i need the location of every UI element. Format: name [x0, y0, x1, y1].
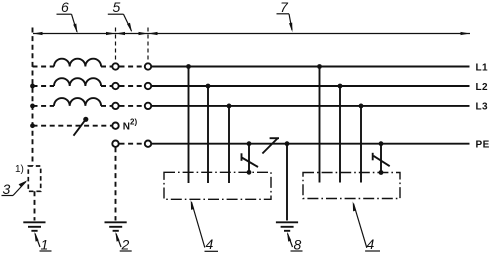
wire between terminals L1: [120, 66, 145, 68]
group 2: link on PE drop: [373, 153, 390, 166]
svg-text:4: 4: [206, 236, 214, 252]
group 2: junction dot at box: [379, 170, 384, 175]
label 2: [115, 232, 131, 253]
label 6: [57, 0, 78, 33]
supply bus vertical (dashed): [32, 28, 34, 167]
terminal circle N: [112, 123, 118, 129]
group 2: junction dot PE tap: [379, 141, 384, 146]
terminal circle L1 b: [145, 63, 151, 69]
group 2: L1 drop wire: [319, 67, 321, 183]
transformer winding L3: [54, 98, 101, 106]
wire L2 to right: [152, 85, 470, 87]
ground 8: [276, 222, 298, 231]
label 1: [34, 232, 51, 253]
box 4 (installation 2): [303, 173, 400, 199]
ground 1: [23, 222, 45, 231]
wire winding to terminal L1: [101, 66, 112, 68]
switch blade N: [74, 117, 89, 136]
terminal circle L2 a: [112, 83, 118, 89]
wire between PE terminals: [120, 143, 145, 145]
wire between terminals L3: [120, 105, 145, 107]
svg-text:PE: PE: [476, 139, 490, 150]
group 1: L3 drop wire: [228, 106, 230, 183]
terminal circle L3 a: [112, 103, 118, 109]
svg-text:8: 8: [294, 237, 302, 253]
group 1: PE drop wire: [248, 144, 250, 173]
junction dot PE earth tap: [285, 141, 290, 146]
earthing conductor 8: [286, 144, 288, 221]
group 1: junction dot L1 tap: [186, 64, 191, 69]
svg-text:7: 7: [280, 0, 289, 15]
junction dot bus N: [30, 123, 35, 128]
label 3: [2, 180, 28, 197]
L3 row: wire from bus: [33, 105, 55, 107]
svg-text:3: 3: [3, 181, 11, 197]
junction dot bus L3: [30, 104, 35, 109]
transformer winding L2: [54, 78, 101, 86]
svg-text:1: 1: [41, 237, 49, 253]
svg-text:2): 2): [130, 118, 137, 127]
group 1: junction dot L3 tap: [227, 104, 232, 109]
group 2: L2 drop wire: [339, 86, 341, 183]
link on PE line (to earth 8): [262, 138, 279, 153]
earthing conductor 2 (dashed): [115, 147, 117, 220]
group 1: L2 drop wire: [207, 86, 209, 183]
label 8: [287, 232, 303, 253]
svg-text:L3: L3: [476, 102, 489, 113]
svg-text:L1: L1: [476, 62, 489, 73]
label 7: [277, 0, 293, 32]
svg-text:6: 6: [61, 0, 69, 15]
group 2: junction dot L3 tap: [359, 104, 364, 109]
group 1: junction dot L2 tap: [206, 84, 211, 89]
label N 2): [123, 118, 138, 133]
svg-text:2: 2: [121, 237, 130, 253]
N row: wire from bus: [33, 125, 112, 127]
svg-text:4: 4: [367, 236, 375, 252]
junction dot bus L2: [30, 84, 35, 89]
transformer winding L1: [54, 59, 101, 67]
group 1: link on PE drop: [242, 153, 259, 167]
wire between terminals L2: [120, 85, 145, 87]
group 2: PE drop wire: [380, 144, 382, 173]
group 2: junction dot L2 tap: [338, 84, 343, 89]
wire resistor to ground 1: [34, 191, 36, 220]
label 4 (installation 1): [191, 200, 218, 252]
wire L3 to right: [152, 105, 470, 107]
PE row: terminal circle a: [112, 141, 118, 147]
svg-text:L2: L2: [476, 82, 489, 93]
L2 row: wire from bus: [33, 85, 55, 87]
terminal circle L3 b: [145, 103, 151, 109]
dimension line: [33, 32, 470, 35]
L1 row: wire from bus: [33, 66, 55, 68]
wire PE to right: [152, 143, 470, 145]
group 1: junction dot PE tap: [247, 141, 252, 146]
wire winding to terminal L2: [101, 85, 112, 87]
extension line at x=148: [147, 28, 149, 63]
terminal circle PE b: [145, 141, 151, 147]
ground 2: [105, 222, 127, 231]
svg-text:1): 1): [15, 164, 24, 175]
label 4 (installation 2): [353, 201, 380, 251]
group 1: L1 drop wire: [188, 67, 190, 184]
group 2: junction dot L1 tap: [317, 64, 322, 69]
svg-text:5: 5: [113, 0, 121, 15]
terminal circle L1 a: [112, 63, 118, 69]
group 1: junction dot at box: [247, 170, 252, 175]
resistor 3 (dashed body): [28, 166, 40, 191]
wire winding to terminal L3: [101, 105, 112, 107]
wire L1 to right: [152, 66, 470, 68]
terminal circle L2 b: [145, 83, 151, 89]
label 5: [108, 0, 132, 32]
extension line at x=115.5: [115, 28, 117, 63]
group 2: L3 drop wire: [360, 106, 362, 183]
box 4 (installation 1): [164, 172, 271, 199]
